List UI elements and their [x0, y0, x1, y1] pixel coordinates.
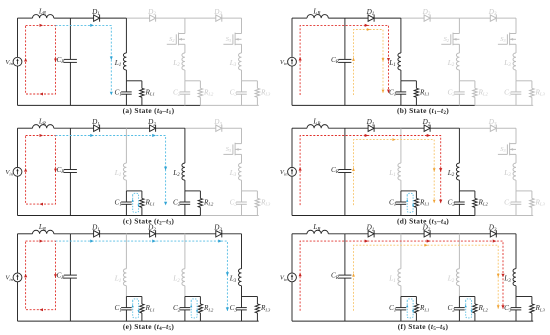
- inductor LR: [307, 15, 328, 19]
- wire branch 2 source to inductor: [184, 44, 186, 53]
- wire bottom rail (inactive): [200, 215, 258, 217]
- wire branch 3 inductor to node: [241, 180, 243, 191]
- resistor RL3: [256, 191, 258, 199]
- wire C3 bottom lead: [515, 310, 517, 321]
- wire C2 top lead: [458, 297, 460, 308]
- wire CR top lead: [69, 18, 71, 59]
- wire branch 1 inductor to node: [125, 180, 127, 191]
- wire C1 top lead: [125, 191, 127, 202]
- node branch 3 output tee: [242, 296, 258, 298]
- wire branch 3 drain: [515, 18, 517, 33]
- inductor LR: [33, 125, 54, 129]
- node branch 3 output tee: [516, 80, 532, 82]
- inductor L1: [398, 163, 401, 180]
- resistor RL3: [531, 297, 533, 305]
- wire C1 bottom lead: [125, 94, 127, 105]
- inductor L1: [123, 269, 126, 286]
- source Vin: [288, 167, 297, 176]
- current loop capacitor C2 discharge (cyan): [191, 299, 197, 318]
- resistor RL1: [415, 297, 417, 305]
- wire branch 3 inductor to node: [241, 70, 243, 81]
- capacitor C1: [121, 91, 132, 93]
- wire C2 bottom lead: [184, 94, 186, 105]
- wire top rail: branch2 node to D3: [459, 127, 490, 129]
- wire branch 2 drain: [458, 18, 460, 33]
- current path input charging (red): [300, 241, 503, 311]
- subcircuit (b) state t1-t2: [280, 8, 546, 117]
- wire bottom rail (black): [18, 320, 259, 322]
- resistor RL1: [141, 191, 143, 199]
- subcircuit (e) state t4-t5: [5, 223, 271, 332]
- transistor S3: [510, 33, 516, 35]
- wire CR bottom lead: [344, 278, 346, 321]
- wire branch 3 top: [241, 234, 243, 269]
- current loop capacitor C1 discharge (cyan): [133, 299, 139, 318]
- wire top rail: D2 to branch2 node: [430, 233, 459, 235]
- wire C1 top lead: [125, 81, 127, 92]
- wire top rail: branch2 node to D3: [185, 127, 216, 129]
- wire C1 top lead: [400, 191, 402, 202]
- wire branch 3 inductor to node: [241, 286, 243, 297]
- wire C1 bottom lead: [400, 94, 402, 105]
- wire top rail: source to LR: [292, 233, 307, 235]
- node branch 1 output tee: [401, 190, 417, 192]
- resistor RL2: [199, 81, 201, 89]
- wire C2 bottom lead: [458, 204, 460, 215]
- resistor RL1: [415, 81, 417, 89]
- inductor L3: [513, 53, 516, 70]
- inductor LR: [33, 15, 54, 19]
- wire branch 1 top: [400, 128, 402, 163]
- diode D2: [150, 231, 156, 237]
- wire branch 3 top: [515, 234, 517, 269]
- wire C1 bottom lead: [125, 204, 127, 215]
- inductor LR: [307, 125, 328, 129]
- wire branch 2 inductor to node: [458, 70, 460, 81]
- capacitor C1: [121, 307, 132, 309]
- wire top rail: LR to CR node: [54, 233, 71, 235]
- wire branch 2 inductor to node: [458, 286, 460, 297]
- node branch 3 output tee: [242, 80, 258, 82]
- diode D2: [150, 15, 156, 21]
- capacitor C2: [180, 307, 191, 309]
- wire C2 top lead: [458, 81, 460, 92]
- wire CR top lead: [344, 128, 346, 169]
- wire C3 bottom lead: [515, 94, 517, 105]
- source Vin: [288, 273, 297, 282]
- svg-text:(a) State (t0–t1): (a) State (t0–t1): [123, 106, 175, 116]
- current path through diode (cyan): [56, 25, 112, 95]
- wire C3 top lead: [241, 297, 243, 308]
- wire bottom rail (inactive): [475, 215, 533, 217]
- wire top rail: D1 to branch1 node: [100, 233, 127, 235]
- wire C3 top lead: [515, 81, 517, 92]
- subcircuit (c) state t2-t3: [5, 118, 271, 227]
- inductor L2: [182, 53, 185, 70]
- inductor L3: [513, 269, 516, 286]
- wire top rail: CR node to D1: [345, 233, 368, 235]
- wire branch 2 top: [184, 234, 186, 269]
- node branch 2 output tee: [459, 190, 475, 192]
- inductor L2: [456, 163, 459, 180]
- source Vin: [288, 57, 297, 66]
- current path resonant capacitor discharge (orange): [354, 140, 435, 206]
- diode D1: [94, 231, 100, 237]
- wire branch 1 top: [125, 18, 127, 53]
- wire bottom rail (black): [18, 215, 201, 217]
- node branch 3 output tee: [516, 296, 532, 298]
- node branch 2 output tee: [459, 80, 475, 82]
- wire branch 3 inductor to node: [515, 286, 517, 297]
- node branch 1 output tee: [401, 80, 417, 82]
- wire C1 bottom lead: [400, 310, 402, 321]
- diode D1: [368, 15, 374, 21]
- inductor L1: [398, 53, 401, 70]
- resistor RL3: [531, 81, 533, 89]
- wire C1 bottom lead: [125, 310, 127, 321]
- diode D1: [368, 231, 374, 237]
- diode D2: [150, 125, 156, 131]
- wire top rail: CR node to D1: [70, 127, 93, 129]
- wire top rail: branch1 node to D2: [401, 17, 424, 19]
- wire bottom rail (black): [292, 104, 475, 106]
- wire C2 top lead: [184, 297, 186, 308]
- capacitor CR: [64, 58, 77, 60]
- wire branch 1 inductor to node: [400, 180, 402, 191]
- inductor L2: [182, 269, 185, 286]
- inductor L1: [123, 53, 126, 70]
- wire CR top lead: [69, 128, 71, 169]
- inductor L3: [238, 163, 241, 180]
- node branch 2 output tee: [459, 296, 475, 298]
- resistor RL1: [415, 191, 417, 199]
- wire top rail: D2 to branch2 node: [156, 233, 185, 235]
- wire branch 2 inductor to node: [184, 70, 186, 81]
- wire CR top lead: [344, 234, 346, 275]
- wire top rail: D1 to branch1 node: [374, 17, 401, 19]
- current loop capacitor C1 discharge (cyan): [133, 193, 139, 212]
- wire branch 2 drain: [184, 18, 186, 33]
- diode D1: [368, 125, 374, 131]
- wire top rail: branch1 node to D2: [126, 233, 149, 235]
- node branch 2 output tee: [185, 296, 201, 298]
- source Vin: [13, 167, 22, 176]
- wire bottom rail (inactive): [475, 104, 533, 106]
- wire top rail: source to LR: [18, 17, 33, 19]
- inductor L3: [238, 269, 241, 286]
- wire C1 top lead: [400, 81, 402, 92]
- wire branch 3 source to inductor: [515, 154, 517, 163]
- wire top rail: source to LR: [18, 233, 33, 235]
- capacitor C2: [180, 201, 191, 203]
- wire top rail: D2 to branch2 node: [430, 127, 459, 129]
- wire branch 1 top: [125, 128, 127, 163]
- diode D3: [216, 125, 222, 131]
- current path resonant capacitor discharge (orange): [354, 30, 384, 96]
- wire branch 1 inductor to node: [400, 286, 402, 297]
- wire branch 3 inductor to node: [515, 70, 517, 81]
- inductor L3: [513, 163, 516, 180]
- inductor L2: [456, 53, 459, 70]
- diode D1: [94, 15, 100, 21]
- inductor L1: [398, 269, 401, 286]
- wire branch 3 inductor to node: [515, 180, 517, 191]
- wire branch 3 drain: [241, 128, 243, 143]
- current loop input resonant (red): [26, 241, 56, 310]
- wire top rail: branch2 node to D3: [185, 17, 216, 19]
- resistor RL2: [474, 191, 476, 199]
- capacitor C2: [454, 201, 465, 203]
- current loop capacitor C1 discharge (cyan): [407, 193, 413, 212]
- inductor LR: [307, 230, 328, 234]
- wire top rail: source to LR: [292, 127, 307, 129]
- wire C2 bottom lead: [458, 94, 460, 105]
- wire bottom rail (inactive): [200, 104, 258, 106]
- resistor RL2: [474, 81, 476, 89]
- wire CR bottom lead: [344, 173, 346, 216]
- diode D3: [490, 125, 496, 131]
- wire C3 top lead: [241, 191, 243, 202]
- wire top rail: LR to CR node: [54, 17, 71, 19]
- wire top rail: LR to CR node: [328, 127, 345, 129]
- resistor RL3: [256, 81, 258, 89]
- capacitor CR: [64, 274, 77, 276]
- svg-text:(b) State (t1–t2): (b) State (t1–t2): [397, 106, 449, 116]
- inductor L1: [123, 163, 126, 180]
- node branch 2 output tee: [185, 80, 201, 82]
- resistor RL1: [141, 81, 143, 89]
- wire branch 2 inductor to node: [184, 180, 186, 191]
- wire bottom rail (black): [18, 104, 201, 106]
- wire branch 2 source to inductor: [458, 44, 460, 53]
- resistor RL3: [256, 297, 258, 305]
- diode D3: [216, 231, 222, 237]
- capacitor C1: [396, 307, 407, 309]
- capacitor CR: [64, 169, 77, 171]
- wire CR bottom lead: [69, 62, 71, 105]
- wire branch 1 inductor to node: [125, 70, 127, 81]
- capacitor C3: [511, 91, 522, 93]
- current path input charging (red): [300, 136, 441, 206]
- wire top rail: D3 to branch3 node: [496, 17, 516, 19]
- subcircuit (f) state t5-t6: [280, 223, 546, 332]
- resistor RL3: [531, 191, 533, 199]
- wire branch 3 source to inductor: [241, 44, 243, 53]
- wire branch 2 top: [458, 128, 460, 163]
- wire C2 bottom lead: [184, 204, 186, 215]
- wire branch 1 inductor to node: [125, 286, 127, 297]
- capacitor CR: [338, 169, 351, 171]
- wire top rail: branch1 node to D2: [126, 127, 149, 129]
- capacitor C1: [396, 91, 407, 93]
- wire C3 top lead: [515, 297, 517, 308]
- wire left rail: [17, 234, 19, 273]
- capacitor CR: [338, 274, 351, 276]
- svg-text:(f) State (t5–t6): (f) State (t5–t6): [398, 322, 449, 332]
- wire top rail: CR node to D1: [345, 127, 368, 129]
- resistor RL1: [141, 297, 143, 305]
- current loop capacitor C1 discharge (cyan): [407, 299, 413, 318]
- wire left rail: [291, 234, 293, 273]
- wire top rail: D1 to branch1 node: [374, 233, 401, 235]
- inductor LR: [33, 230, 54, 234]
- wire top rail: branch2 node to D3: [459, 17, 490, 19]
- wire C1 top lead: [400, 297, 402, 308]
- current loop capacitor C2 discharge (cyan): [466, 299, 472, 318]
- wire top rail: branch1 node to D2: [401, 127, 424, 129]
- wire top rail: source to LR: [18, 127, 33, 129]
- inductor L3: [238, 53, 241, 70]
- capacitor CR: [338, 58, 351, 60]
- wire top rail: LR to CR node: [328, 233, 345, 235]
- wire left rail: [291, 18, 293, 57]
- inductor L2: [182, 163, 185, 180]
- wire CR bottom lead: [344, 62, 346, 105]
- wire C3 top lead: [515, 191, 517, 202]
- node branch 3 output tee: [516, 190, 532, 192]
- transistor S2: [179, 33, 185, 35]
- wire top rail: CR node to D1: [345, 17, 368, 19]
- resistor RL2: [474, 297, 476, 305]
- wire C1 bottom lead: [400, 204, 402, 215]
- wire CR bottom lead: [69, 278, 71, 321]
- wire top rail: branch2 node to D3: [459, 233, 490, 235]
- node branch 2 output tee: [185, 190, 201, 192]
- wire top rail: LR to CR node: [54, 127, 71, 129]
- wire top rail: branch2 node to D3: [185, 233, 216, 235]
- wire top rail: D1 to branch1 node: [374, 127, 401, 129]
- wire top rail: D1 to branch1 node: [100, 17, 127, 19]
- diode D1: [94, 125, 100, 131]
- node branch 1 output tee: [126, 296, 141, 298]
- wire branch 1 top: [400, 234, 402, 269]
- wire C2 top lead: [184, 81, 186, 92]
- wire branch 2 top: [458, 234, 460, 269]
- wire branch 1 inductor to node: [400, 70, 402, 81]
- wire left rail: [291, 128, 293, 167]
- capacitor C2: [454, 91, 465, 93]
- wire C3 top lead: [241, 81, 243, 92]
- transistor S3: [235, 143, 241, 145]
- current path through diode (cyan): [56, 241, 228, 311]
- node branch 1 output tee: [126, 190, 141, 192]
- node branch 3 output tee: [242, 190, 258, 192]
- capacitor C3: [511, 201, 522, 203]
- capacitor C2: [180, 91, 191, 93]
- diode D3: [490, 15, 496, 21]
- capacitor C3: [236, 307, 247, 309]
- wire top rail: source to LR: [292, 17, 307, 19]
- wire branch 1 top: [125, 234, 127, 269]
- current path through diode (cyan): [56, 136, 166, 206]
- wire C3 bottom lead: [241, 94, 243, 105]
- capacitor C1: [396, 201, 407, 203]
- wire C1 top lead: [125, 297, 127, 308]
- inductor L2: [456, 269, 459, 286]
- wire C3 bottom lead: [515, 204, 517, 215]
- wire top rail: D3 to branch3 node: [496, 233, 516, 235]
- capacitor C3: [236, 91, 247, 93]
- diode D3: [216, 15, 222, 21]
- node branch 1 output tee: [401, 296, 417, 298]
- diode D2: [424, 125, 430, 131]
- capacitor C1: [121, 201, 132, 203]
- capacitor C2: [454, 307, 465, 309]
- wire top rail: D3 to branch3 node: [222, 233, 242, 235]
- source Vin: [13, 273, 22, 282]
- resistor RL2: [199, 297, 201, 305]
- svg-text:(e) State (t4–t5): (e) State (t4–t5): [123, 322, 175, 332]
- diode D2: [424, 15, 430, 21]
- capacitor C3: [236, 201, 247, 203]
- source Vin: [13, 57, 22, 66]
- current loop input resonant (red): [26, 25, 56, 94]
- wire C3 bottom lead: [241, 204, 243, 215]
- wire bottom rail (black): [292, 215, 475, 217]
- wire top rail: CR node to D1: [70, 233, 93, 235]
- wire top rail: D2 to branch2 node: [156, 17, 185, 19]
- wire left rail: [17, 18, 19, 57]
- wire top rail: LR to CR node: [328, 17, 345, 19]
- wire branch 3 source to inductor: [515, 44, 517, 53]
- current loop input resonant (red): [26, 136, 56, 205]
- diode D2: [424, 231, 430, 237]
- wire CR bottom lead: [69, 173, 71, 216]
- wire top rail: D3 to branch3 node: [222, 17, 242, 19]
- wire branch 3 source to inductor: [241, 154, 243, 163]
- wire branch 1 top: [400, 18, 402, 53]
- current path resonant capacitor discharge (orange): [354, 245, 499, 311]
- wire branch 3 drain: [515, 128, 517, 143]
- wire branch 2 inductor to node: [458, 180, 460, 191]
- wire top rail: CR node to D1: [70, 17, 93, 19]
- wire top rail: D2 to branch2 node: [430, 17, 459, 19]
- wire C2 top lead: [184, 191, 186, 202]
- transistor S3: [235, 33, 241, 35]
- transistor S2: [453, 33, 459, 35]
- wire CR top lead: [344, 18, 346, 59]
- wire top rail: D1 to branch1 node: [100, 127, 127, 129]
- wire C2 top lead: [458, 191, 460, 202]
- wire branch 2 top: [184, 128, 186, 163]
- node branch 1 output tee: [126, 80, 141, 82]
- capacitor C3: [511, 307, 522, 309]
- diode D3: [490, 231, 496, 237]
- resistor RL2: [199, 191, 201, 199]
- wire left rail: [17, 128, 19, 167]
- subcircuit (a) state t0-t1: [5, 8, 271, 117]
- wire C2 bottom lead: [458, 310, 460, 321]
- wire branch 2 inductor to node: [184, 286, 186, 297]
- transistor S3: [510, 143, 516, 145]
- wire top rail: D3 to branch3 node: [496, 127, 516, 129]
- wire branch 3 drain: [241, 18, 243, 33]
- wire C2 bottom lead: [184, 310, 186, 321]
- wire CR top lead: [69, 234, 71, 275]
- wire C3 bottom lead: [241, 310, 243, 321]
- wire bottom rail (black): [292, 320, 533, 322]
- current path input charging (red): [300, 25, 388, 95]
- wire top rail: branch1 node to D2: [126, 17, 149, 19]
- wire top rail: D3 to branch3 node: [222, 127, 242, 129]
- wire top rail: branch1 node to D2: [401, 233, 424, 235]
- subcircuit (d) state t3-t4: [280, 118, 546, 227]
- wire top rail: D2 to branch2 node: [156, 127, 185, 129]
